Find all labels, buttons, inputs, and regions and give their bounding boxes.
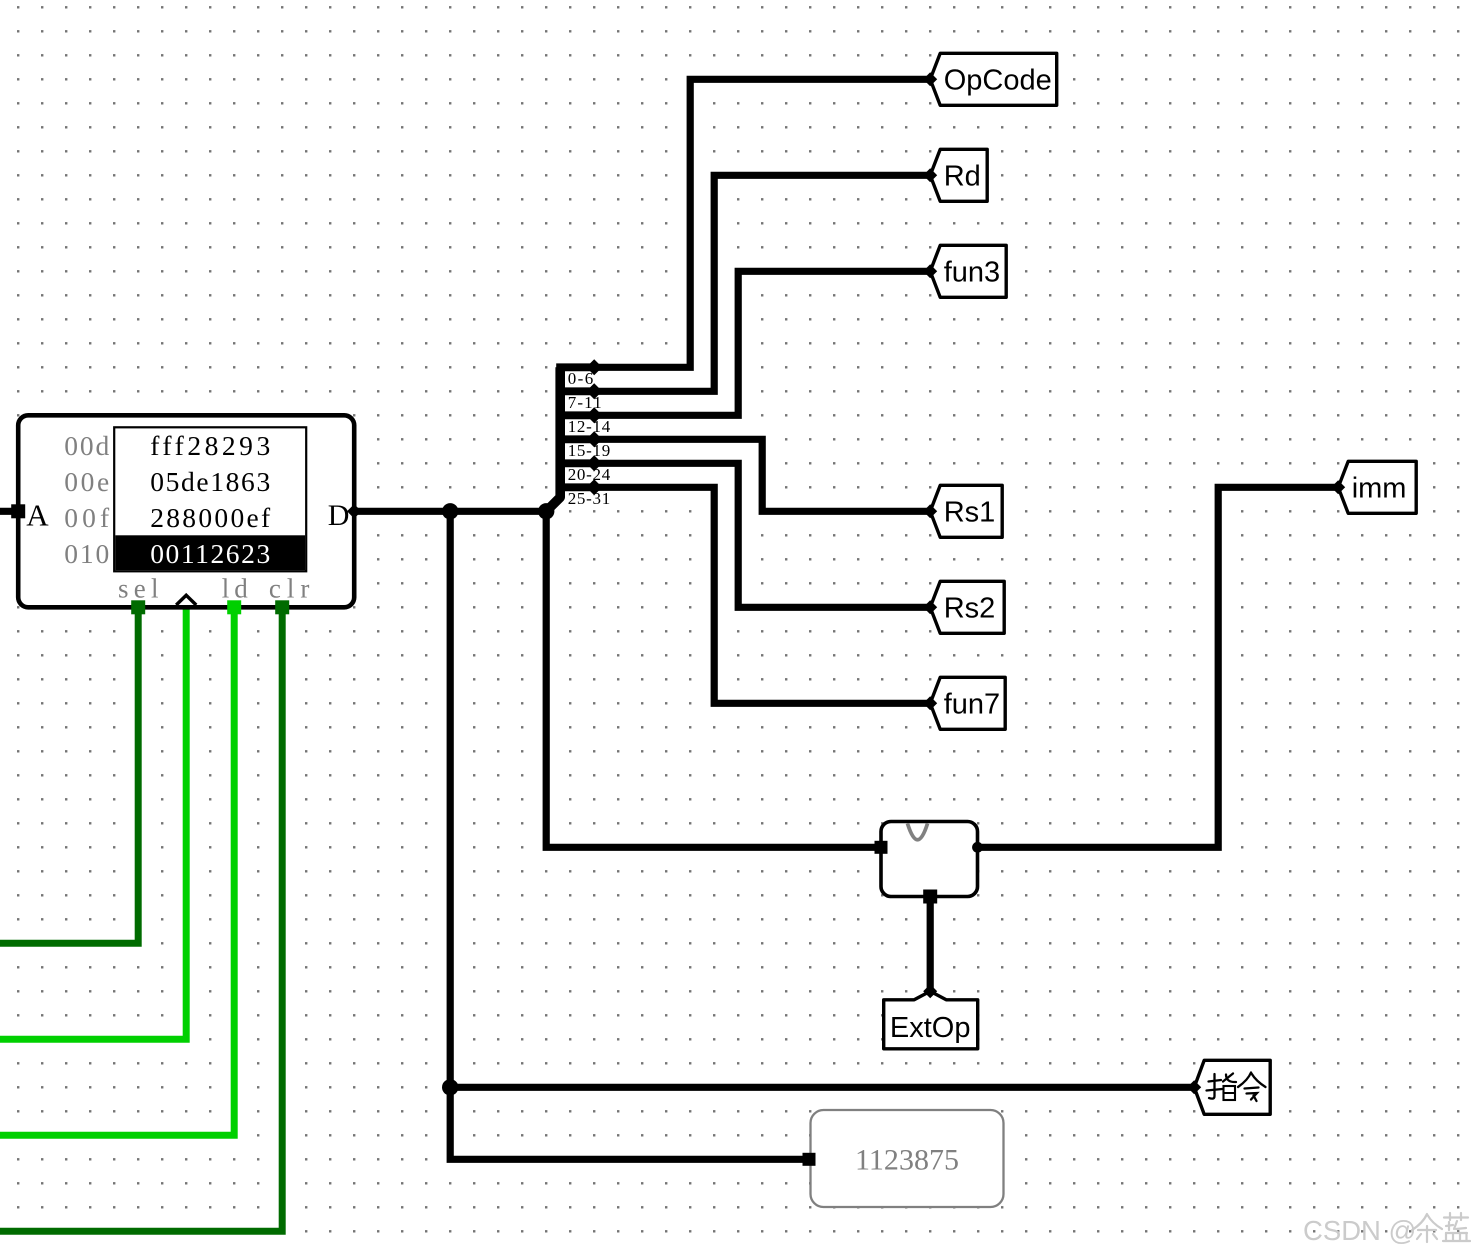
- svg-text:1123875: 1123875: [855, 1143, 959, 1176]
- splitter field label 25-31: [568, 489, 611, 508]
- svg-text:05de1863: 05de1863: [150, 466, 270, 497]
- wire ROM D output to extender west: [354, 511, 881, 847]
- svg-text:fun3: fun3: [944, 257, 1000, 289]
- svg-text:imm: imm: [1352, 473, 1407, 505]
- watermark CSDN @yulan: [1303, 1213, 1470, 1246]
- wire sel control (dark green): [0, 607, 138, 943]
- wire ROM A input stub: [0, 508, 18, 515]
- svg-text:OpCode: OpCode: [944, 65, 1052, 97]
- ROM data value 00112623: [150, 538, 270, 569]
- ROM label clr: [269, 573, 310, 603]
- svg-text:ExtOp: ExtOp: [890, 1012, 971, 1044]
- ROM port sel (dark green square): [131, 600, 145, 614]
- ROM data window: [114, 427, 306, 571]
- junction node instruction branch: [442, 1079, 458, 1095]
- wire splitter bits 15-19 to Rs1: [594, 439, 930, 511]
- wire clr control (dark green): [0, 607, 282, 1231]
- wire splitter bits 7-11 to Rd: [594, 175, 930, 391]
- output pin OpCode: [923, 53, 1056, 105]
- ROM port label D: [328, 499, 350, 532]
- svg-text:010: 010: [64, 538, 109, 569]
- svg-text:Rd: Rd: [944, 161, 981, 193]
- output pin ExtOp: [884, 984, 978, 1049]
- svg-text:ld: ld: [222, 573, 249, 603]
- ROM memory block: [18, 415, 354, 607]
- svg-text:00d: 00d: [64, 430, 109, 461]
- svg-text:D: D: [328, 499, 350, 532]
- svg-text:A: A: [26, 497, 49, 532]
- splitter field label 20-24: [568, 465, 611, 484]
- svg-text:25-31: 25-31: [568, 489, 611, 508]
- output pin Rd: [923, 149, 987, 201]
- wire extender south to ExtOp pin: [927, 897, 934, 992]
- splitter field label 7-11: [568, 393, 602, 412]
- wire clock control (bright green): [0, 607, 186, 1039]
- svg-text:Rs1: Rs1: [944, 497, 996, 529]
- output pin 指令 (instruction): [1187, 1060, 1270, 1114]
- ROM port clr (dark green square): [275, 600, 289, 614]
- ROM data value fff28293: [150, 430, 270, 461]
- splitter 32-bit to 6 fields: [546, 359, 602, 511]
- ROM label ld: [222, 573, 249, 603]
- ROM address label 010: [64, 538, 109, 569]
- probe 1123875: [803, 1110, 1004, 1207]
- ROM port A (input square): [11, 504, 25, 518]
- splitter field label 12-14: [568, 417, 611, 436]
- wire splitter bits 12-14 to fun3: [594, 271, 930, 415]
- svg-text:15-19: 15-19: [568, 441, 611, 460]
- wire splitter bits 20-24 to Rs2: [594, 463, 930, 607]
- splitter field label 15-19: [568, 441, 611, 460]
- svg-text:7-11: 7-11: [568, 393, 602, 412]
- ROM port ld (bright green square): [227, 600, 241, 614]
- svg-text:sel: sel: [118, 573, 159, 603]
- svg-text:0-6: 0-6: [568, 369, 594, 388]
- svg-text:00e: 00e: [64, 466, 109, 497]
- svg-text:CSDN @: CSDN @: [1303, 1215, 1416, 1246]
- ROM address label 00d: [64, 430, 109, 461]
- output pin Rs2: [923, 581, 1004, 633]
- output pin fun3: [923, 245, 1006, 297]
- wire splitter bits 0-6 to OpCode: [594, 79, 930, 367]
- svg-text:20-24: 20-24: [568, 465, 611, 484]
- ROM label sel: [118, 573, 159, 603]
- ROM data value 288000ef: [150, 502, 271, 533]
- svg-text:Rs2: Rs2: [944, 593, 996, 625]
- wire ld control (bright green): [0, 607, 234, 1135]
- output pin Rs1: [923, 485, 1002, 537]
- wire branch down from D node to probe row: [450, 511, 806, 1159]
- ROM port label A: [26, 497, 49, 532]
- ROM clock input chevron: [176, 595, 196, 605]
- junction node at splitter origin: [538, 503, 554, 519]
- wire extender east to imm pin: [978, 487, 1339, 847]
- svg-text:12-14: 12-14: [568, 417, 611, 436]
- ROM address label 00f: [64, 502, 110, 533]
- svg-text:00f: 00f: [64, 502, 110, 533]
- output pin fun7: [923, 677, 1005, 729]
- ROM address label 00e: [64, 466, 109, 497]
- svg-text:clr: clr: [269, 573, 310, 603]
- junction node at D output column: [442, 503, 458, 519]
- bit extender U1: [875, 822, 983, 904]
- ROM port D (output diamond): [347, 504, 361, 518]
- wire splitter bits 25-31 to fun7: [594, 487, 930, 703]
- splitter field label 0-6: [568, 369, 594, 388]
- output pin imm: [1331, 461, 1416, 513]
- svg-text:288000ef: 288000ef: [150, 502, 271, 533]
- svg-text:fun7: fun7: [944, 689, 1000, 721]
- svg-text:fff28293: fff28293: [150, 430, 270, 461]
- ROM data value 05de1863: [150, 466, 270, 497]
- wire instruction bus to pin: [450, 1084, 1194, 1091]
- svg-text:00112623: 00112623: [150, 538, 270, 569]
